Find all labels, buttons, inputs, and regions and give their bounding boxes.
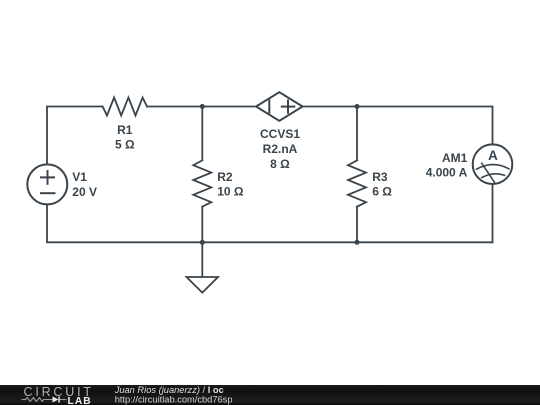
node junction R3-top (355, 104, 360, 109)
svg-text:LAB: LAB (68, 396, 92, 405)
wire R1 to CCVS1 (147, 106, 256, 108)
svg-text:V1: V1 (72, 170, 87, 184)
label R1 value (115, 123, 135, 152)
label R2 value (217, 170, 244, 199)
ground (187, 242, 219, 292)
resistor R3 (348, 160, 366, 206)
svg-text:6 Ω: 6 Ω (372, 185, 392, 199)
resistor R1 (103, 98, 147, 116)
wire R3 top lead (356, 107, 358, 161)
wire R2 bottom lead (201, 207, 203, 243)
svg-text:http://circuitlab.com/cbd76sp: http://circuitlab.com/cbd76sp (115, 395, 233, 405)
wire ammeter bottom to bottom-right corner (492, 184, 494, 242)
svg-text:R2: R2 (217, 170, 233, 184)
label AM1 value (426, 151, 468, 180)
wire V1 bottom to bottom-left corner (47, 204, 493, 242)
svg-text:5 Ω: 5 Ω (115, 138, 135, 152)
wire top-left segment (47, 107, 103, 165)
ammeter AM1 (473, 144, 513, 184)
voltage source V1 (27, 164, 67, 204)
svg-text:CCVS1: CCVS1 (260, 127, 300, 141)
svg-text:R2.nA: R2.nA (263, 142, 298, 156)
logo diode (53, 397, 67, 403)
svg-text:20 V: 20 V (72, 185, 97, 199)
node junction R2-top (200, 104, 205, 109)
svg-text:A: A (488, 148, 498, 163)
svg-text:R3: R3 (372, 170, 388, 184)
dependent source CCVS1 (256, 92, 303, 121)
svg-text:4.000 A: 4.000 A (426, 166, 468, 180)
node junction R2-bottom / ground (200, 240, 205, 245)
svg-text:10 Ω: 10 Ω (217, 185, 244, 199)
label R3 value (372, 170, 392, 199)
resistor R2 (193, 160, 211, 206)
logo resistor squiggle (22, 398, 53, 402)
wire R2 top lead (201, 107, 203, 161)
svg-text:R1: R1 (117, 123, 133, 137)
wire CCVS1 to right top corner (303, 107, 493, 145)
svg-text:AM1: AM1 (442, 151, 468, 165)
label CCVS1 value (260, 127, 300, 171)
wire R3 bottom lead (356, 207, 358, 243)
svg-text:8 Ω: 8 Ω (270, 157, 290, 171)
label V1 value (72, 170, 97, 199)
node junction R3-bottom (355, 240, 360, 245)
footer bar (0, 385, 540, 405)
